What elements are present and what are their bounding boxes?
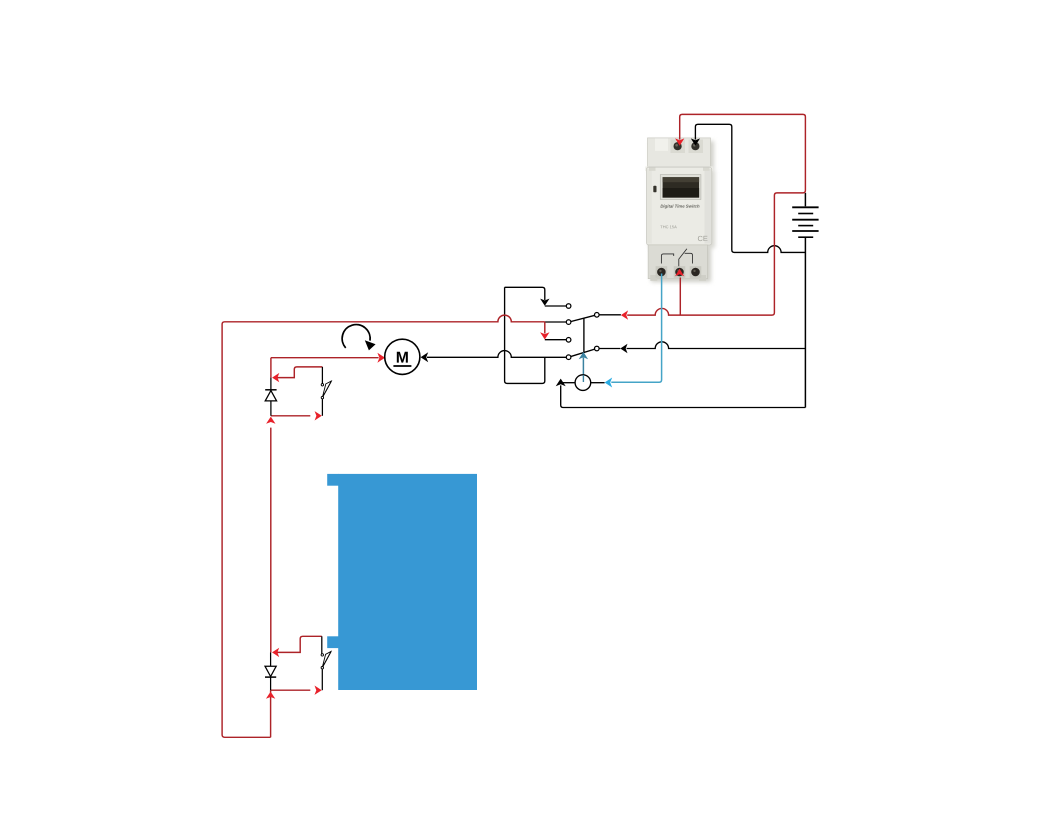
svg-text:M: M — [396, 350, 409, 367]
svg-text:Digital Time Switch: Digital Time Switch — [660, 204, 700, 209]
svg-text:THC 15A: THC 15A — [660, 224, 677, 229]
svg-text:CE: CE — [697, 234, 707, 243]
